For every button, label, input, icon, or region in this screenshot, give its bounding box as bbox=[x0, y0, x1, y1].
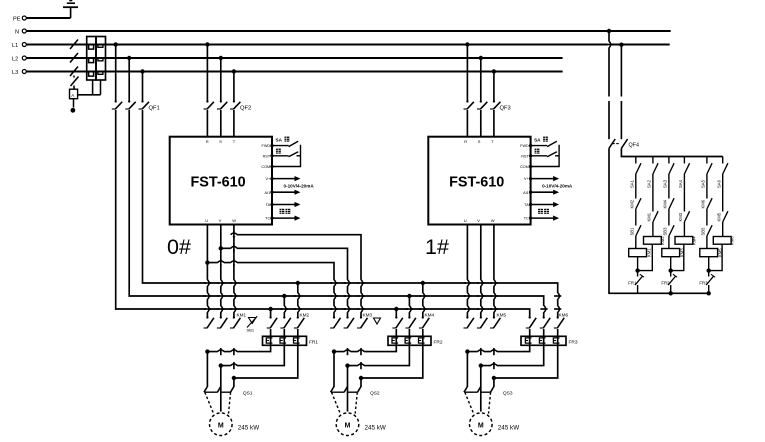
svg-text:1#: 1# bbox=[425, 235, 449, 259]
contact KM2 NC bbox=[630, 174, 642, 209]
thermal-relay FR3 bbox=[521, 329, 578, 346]
wire FR3 pole1 join bbox=[467, 345, 529, 351]
node KM2 pole1 tap bbox=[268, 307, 272, 311]
svg-text:QF2: QF2 bbox=[240, 106, 251, 112]
terminal L1 bbox=[12, 43, 26, 50]
wire coil KM6 return bbox=[709, 244, 722, 270]
breaker QF4 bbox=[609, 139, 639, 149]
wire U1-W output to KM1 pole3 bbox=[233, 225, 235, 318]
node FR2 pole3 bbox=[359, 376, 363, 380]
svg-text:FR3: FR3 bbox=[569, 340, 578, 346]
node FR3 pole3 bbox=[492, 376, 496, 380]
contact KM3 bbox=[678, 174, 690, 222]
node L3 tap QF3 bbox=[492, 69, 496, 73]
contact FR3 NC bbox=[699, 271, 715, 294]
node L2 tap QF2 bbox=[219, 56, 223, 60]
node U branch bbox=[205, 260, 209, 264]
svg-text:SA4: SA4 bbox=[678, 179, 683, 188]
fuse-switch SA5 bbox=[701, 157, 713, 189]
meter Wh current-transformer block bbox=[87, 37, 106, 81]
wire KM4 pole drops bbox=[396, 283, 423, 318]
node KM4 pole1 tap bbox=[394, 307, 398, 311]
node pair2 join bbox=[669, 268, 673, 272]
svg-text:V: V bbox=[477, 218, 480, 223]
node FR3 pole2 bbox=[479, 363, 483, 367]
cable funnel motor2 bbox=[332, 387, 358, 414]
svg-text:TC: TC bbox=[265, 217, 270, 221]
svg-text:KM5: KM5 bbox=[716, 212, 721, 221]
wire FR2 pole1 join bbox=[334, 345, 396, 351]
svg-text:KM2: KM2 bbox=[300, 313, 310, 318]
wire FR1 pole2 join bbox=[221, 345, 284, 365]
svg-text:KM4: KM4 bbox=[663, 199, 668, 208]
svg-text:W: W bbox=[232, 218, 236, 223]
node L3 tap QF2 bbox=[232, 69, 236, 73]
wire L3 bus bbox=[27, 71, 563, 73]
svg-text:0#: 0# bbox=[167, 235, 191, 259]
node W branch bbox=[232, 233, 236, 237]
svg-text:SA2: SA2 bbox=[647, 179, 652, 188]
wire PE bbox=[27, 17, 71, 19]
wire U1-V output to KM1 pole2 bbox=[220, 225, 222, 318]
motor M2 bbox=[336, 413, 386, 436]
coil KM3 bbox=[662, 236, 685, 271]
svg-text:KM5: KM5 bbox=[497, 313, 507, 318]
fuse-switch SA1 bbox=[630, 157, 642, 189]
svg-text:FWD: FWD bbox=[520, 144, 529, 148]
svg-text:KM6: KM6 bbox=[730, 236, 735, 245]
node L1 tap control bbox=[619, 43, 623, 47]
terminal AI1 of U2 bbox=[529, 190, 559, 195]
svg-text:SA6: SA6 bbox=[716, 179, 721, 188]
svg-text:245 kW: 245 kW bbox=[238, 425, 259, 432]
node L1 tap QF3 bbox=[465, 42, 469, 46]
cable funnel motor3 bbox=[465, 387, 491, 414]
contact KM5 bbox=[716, 174, 728, 222]
svg-text:V+: V+ bbox=[524, 177, 530, 181]
wire CT secondary bbox=[78, 80, 101, 95]
node FR2 pole2 bbox=[345, 363, 349, 367]
svg-text:KM1: KM1 bbox=[237, 313, 247, 318]
svg-text:KM2: KM2 bbox=[630, 199, 635, 208]
svg-text:FR3: FR3 bbox=[699, 281, 708, 286]
svg-text:TC: TC bbox=[524, 217, 529, 221]
svg-text:S: S bbox=[478, 139, 481, 144]
node FR1 pole1 bbox=[205, 349, 209, 353]
thermal-relay FR2 bbox=[388, 329, 443, 346]
thermal-relay FR1 bbox=[263, 329, 319, 346]
node FR1 pole2 bbox=[219, 363, 223, 367]
wire control neutral drop bbox=[608, 31, 610, 139]
soft-starter U2 FST-610 box bbox=[428, 137, 530, 225]
breaker QF3 bbox=[464, 45, 511, 112]
svg-text:U: U bbox=[205, 218, 208, 223]
wire crossovers bbox=[204, 41, 613, 369]
node N tap control bbox=[607, 29, 611, 33]
wire M1 feeders bbox=[207, 352, 234, 387]
wire U1-U output to KM1 pole1 bbox=[206, 225, 208, 318]
wire QF1 pole3 to top bus bbox=[143, 110, 298, 283]
svg-text:QF1: QF1 bbox=[149, 106, 160, 112]
svg-text:COM: COM bbox=[261, 165, 270, 169]
svg-text:RST: RST bbox=[263, 154, 271, 158]
coil KM2 bbox=[644, 222, 665, 245]
terminal V+ analog output of U2 bbox=[529, 176, 573, 189]
svg-text:FWD: FWD bbox=[262, 144, 271, 148]
wire QF1 pole1 to bottom bus bbox=[116, 110, 271, 309]
svg-text:KM3: KM3 bbox=[363, 313, 373, 318]
svg-text:0-10V/4-20mA: 0-10V/4-20mA bbox=[542, 184, 573, 189]
fuse-switch SA2 bbox=[647, 157, 659, 189]
svg-text:245 kW: 245 kW bbox=[365, 425, 386, 432]
svg-text:AI1: AI1 bbox=[264, 191, 270, 195]
coil KM1 bbox=[629, 236, 652, 271]
node FR3 pole1 bbox=[465, 349, 469, 353]
svg-text:FR1: FR1 bbox=[628, 281, 637, 286]
node KM4 pole3 tap bbox=[421, 281, 425, 285]
motor M3 bbox=[470, 413, 520, 436]
fuse-switch SA6 bbox=[716, 157, 728, 189]
contact SB1 bbox=[630, 209, 642, 236]
node L1 tap QF1 bbox=[114, 42, 118, 46]
contact SB5 bbox=[701, 209, 713, 236]
svg-text:FR2: FR2 bbox=[661, 281, 670, 286]
svg-text:SA1: SA1 bbox=[630, 179, 635, 188]
node KM2 pole3 tap bbox=[296, 281, 300, 285]
switch SA start-stop of U1 bbox=[270, 137, 300, 169]
wire FR3 pole2 join bbox=[481, 345, 544, 365]
wire middle bus to KM6 bbox=[284, 296, 543, 318]
node control bus pair2 bbox=[669, 291, 673, 295]
svg-text:AI1: AI1 bbox=[523, 191, 529, 195]
wire top bus to KM6 bbox=[298, 283, 558, 318]
contactor KM1 bbox=[204, 313, 247, 329]
node pair1 join bbox=[635, 268, 639, 272]
switch QS3 bbox=[464, 387, 513, 397]
node FR1 pole3 bbox=[232, 376, 236, 380]
svg-text:SA5: SA5 bbox=[701, 179, 706, 188]
node pair3 join bbox=[707, 268, 711, 272]
motor M1 bbox=[210, 413, 260, 436]
switch QS2 bbox=[331, 387, 380, 397]
svg-text:L1: L1 bbox=[12, 43, 18, 49]
svg-text:V+: V+ bbox=[265, 177, 271, 181]
node L1 tap QF2 bbox=[205, 42, 209, 46]
svg-text:QF4: QF4 bbox=[629, 143, 639, 149]
contact FR1 NC bbox=[628, 271, 644, 294]
terminal L2 bbox=[12, 56, 26, 63]
breaker QF main bbox=[70, 40, 79, 90]
node L2 tap QF1 bbox=[127, 56, 131, 60]
svg-text:R: R bbox=[206, 139, 209, 144]
svg-text:SA: SA bbox=[276, 138, 283, 143]
breaker QF1 bbox=[112, 45, 160, 112]
contact KM6 NC bbox=[701, 174, 713, 209]
wire control line drop bbox=[620, 45, 622, 140]
switch SA start-stop of U2 bbox=[529, 137, 559, 169]
svg-text:QS3: QS3 bbox=[503, 391, 513, 397]
cable funnel motor1 bbox=[205, 387, 231, 414]
wire FR1 pole3 join bbox=[234, 345, 298, 378]
wire FR1 pole1 join bbox=[207, 345, 270, 351]
svg-text:KM2: KM2 bbox=[660, 236, 665, 245]
svg-text:SB3: SB3 bbox=[663, 227, 668, 236]
svg-text:FST-610: FST-610 bbox=[449, 174, 504, 190]
terminal TC relay output of U2 bbox=[529, 216, 559, 221]
svg-text:FR1: FR1 bbox=[309, 340, 318, 346]
wire QF2 to FST1 inputs bbox=[207, 110, 234, 137]
node KM4 pole2 tap bbox=[407, 294, 411, 298]
svg-text:TA: TA bbox=[524, 203, 529, 207]
fuse-switch SA4 bbox=[678, 157, 690, 189]
wire FR2 pole2 join bbox=[348, 345, 410, 365]
node V branch bbox=[219, 246, 223, 250]
svg-text:TA: TA bbox=[266, 203, 271, 207]
wire M2 feeders bbox=[334, 352, 361, 387]
svg-text:KM6: KM6 bbox=[559, 313, 569, 318]
wire FR2 pole3 join bbox=[361, 345, 423, 378]
terminal PE bbox=[13, 16, 26, 22]
wire neutral to bottom control bus bbox=[609, 148, 707, 293]
svg-text:COM: COM bbox=[520, 165, 529, 169]
switch QS1 bbox=[204, 387, 253, 397]
svg-text:L2: L2 bbox=[12, 57, 18, 63]
wire L1 bus bbox=[27, 44, 670, 46]
coil KM4 bbox=[675, 222, 696, 245]
terminal V+ analog output of U1 bbox=[270, 176, 314, 189]
wire V branch to KM3 pole2 bbox=[221, 248, 348, 317]
svg-text:KM6: KM6 bbox=[701, 199, 706, 208]
terminal AI1 of U1 bbox=[270, 190, 300, 195]
wire coil KM2 return bbox=[638, 244, 653, 270]
svg-text:FST-610: FST-610 bbox=[191, 174, 246, 190]
ground bbox=[63, 1, 78, 18]
svg-text:W: W bbox=[491, 218, 495, 223]
terminal TA relay output of U2 bbox=[529, 202, 559, 214]
contact KM4 NC bbox=[663, 174, 675, 209]
svg-text:QS1: QS1 bbox=[243, 391, 253, 397]
breaker QF2 bbox=[204, 45, 252, 112]
wire KM2 pole drops bbox=[271, 283, 298, 318]
contact SB3 bbox=[663, 209, 675, 236]
svg-text:V: V bbox=[219, 218, 222, 223]
wire FR3 pole3 join bbox=[494, 345, 558, 378]
terminal L3 bbox=[12, 70, 26, 77]
terminal TC relay output of U1 bbox=[270, 216, 300, 221]
svg-text:KM1: KM1 bbox=[647, 212, 652, 221]
symbol test-point near KM3 bbox=[374, 318, 381, 324]
svg-text:SA3: SA3 bbox=[663, 179, 668, 188]
meter A1 ammeter box bbox=[70, 89, 78, 99]
svg-text:0-10V/4-20mA: 0-10V/4-20mA bbox=[284, 184, 315, 189]
node L2 tap QF3 bbox=[479, 56, 483, 60]
svg-text:M: M bbox=[478, 422, 484, 429]
node FR2 pole1 bbox=[332, 349, 336, 353]
svg-text:KM4: KM4 bbox=[691, 236, 696, 245]
wire QF1 pole2 to middle bus bbox=[129, 110, 284, 296]
wire M3 feeders bbox=[467, 352, 494, 387]
wire QF3 to FST2 inputs bbox=[467, 110, 494, 137]
wire N bus bbox=[27, 30, 671, 32]
svg-text:M: M bbox=[218, 422, 224, 429]
svg-text:SB5: SB5 bbox=[701, 227, 706, 236]
svg-text:KM1: KM1 bbox=[646, 248, 651, 257]
svg-text:S: S bbox=[219, 139, 222, 144]
wire U2 outputs to KM5 bbox=[467, 225, 494, 318]
soft-starter U1 FST-610 box bbox=[170, 137, 272, 225]
contactor KM5 bbox=[464, 313, 507, 329]
svg-text:QS2: QS2 bbox=[370, 391, 380, 397]
svg-text:245 kW: 245 kW bbox=[498, 425, 519, 432]
svg-text:RST: RST bbox=[521, 154, 529, 158]
node L3 tap QF1 bbox=[140, 69, 144, 73]
terminal N bbox=[15, 29, 26, 35]
svg-text:U: U bbox=[464, 218, 467, 223]
contactor KM6 bbox=[526, 313, 569, 329]
terminal TA relay output of U1 bbox=[270, 202, 300, 214]
node control bus pair3 bbox=[707, 291, 711, 295]
svg-text:SB1: SB1 bbox=[247, 328, 255, 333]
node KM2 pole2 tap bbox=[282, 294, 286, 298]
contact FR2 NC bbox=[661, 271, 677, 294]
wire L2 bus bbox=[27, 57, 563, 59]
wire control feed bus bbox=[621, 148, 722, 156]
svg-text:KM4: KM4 bbox=[425, 313, 435, 318]
contact KM1 bbox=[647, 174, 659, 222]
coil KM5 bbox=[700, 236, 723, 271]
svg-text:SA: SA bbox=[534, 138, 541, 143]
wire coil KM4 return bbox=[671, 244, 684, 270]
svg-text:QF3: QF3 bbox=[500, 106, 511, 112]
contactor KM2 bbox=[267, 313, 310, 329]
contactor KM4 bbox=[392, 313, 434, 329]
coil KM6 bbox=[713, 222, 734, 245]
svg-text:N: N bbox=[15, 29, 19, 35]
wire bottom bus to KM6 bbox=[271, 309, 530, 318]
svg-text:FR2: FR2 bbox=[434, 340, 443, 346]
svg-text:M: M bbox=[345, 422, 351, 429]
symbol test-point near KM1 bbox=[247, 316, 258, 332]
svg-text:L3: L3 bbox=[12, 70, 18, 76]
contactor KM3 bbox=[330, 313, 372, 329]
fuse-switch SA3 bbox=[663, 157, 675, 189]
wire U branch to KM3 pole1 bbox=[207, 263, 334, 318]
wire ammeter drop bbox=[71, 99, 76, 113]
svg-text:SB1: SB1 bbox=[630, 227, 635, 236]
svg-text:PE: PE bbox=[13, 16, 21, 22]
wire W branch to KM3 pole3 bbox=[234, 235, 361, 318]
svg-text:KM3: KM3 bbox=[678, 212, 683, 221]
svg-text:R: R bbox=[464, 139, 467, 144]
